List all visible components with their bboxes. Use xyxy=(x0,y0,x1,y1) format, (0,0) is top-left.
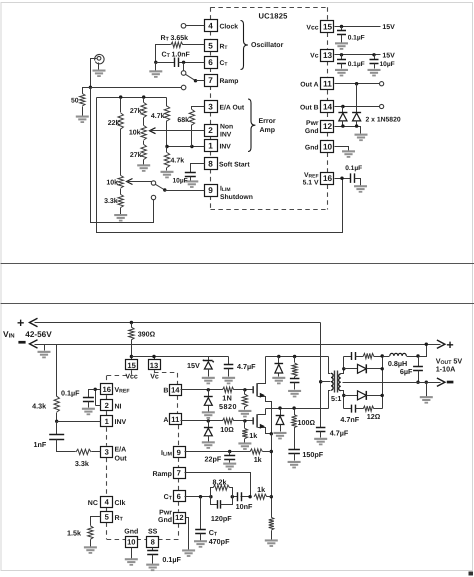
node secondary top diode tap xyxy=(342,367,345,370)
resistor 22k xyxy=(120,98,122,113)
wire INV row bottom xyxy=(57,421,101,423)
svg-text:2: 2 xyxy=(105,401,109,410)
svg-text:Shutdown: Shutdown xyxy=(220,194,253,201)
svg-text:Clock: Clock xyxy=(220,23,239,30)
svg-text:5: 5 xyxy=(208,42,213,51)
ground pin 12 xyxy=(182,549,195,556)
node Out B diode tap xyxy=(341,105,344,108)
resistor 4.7k upper xyxy=(166,98,168,107)
svg-text:RT: RT xyxy=(115,515,124,523)
svg-text:50: 50 xyxy=(71,97,79,104)
ground below 22pF xyxy=(223,463,236,470)
arrow VIN plus xyxy=(30,318,38,326)
switch S1 lever xyxy=(186,74,196,80)
transistor Q1 upper MOSFET xyxy=(252,386,254,393)
svg-text:Vcc: Vcc xyxy=(125,374,138,381)
node B diode tap xyxy=(207,388,210,391)
node CT switch tap xyxy=(182,61,185,64)
capacitor CT 1.0nF xyxy=(156,62,175,64)
wire VREF divider rail xyxy=(97,97,167,99)
pin 8 Soft Start xyxy=(205,158,218,170)
capacitor 10uF Vc xyxy=(374,55,376,60)
wire Vcc 15V xyxy=(335,26,381,28)
svg-text:8: 8 xyxy=(208,160,213,169)
svg-text:9: 9 xyxy=(208,186,213,195)
minus mark VOUT xyxy=(447,381,454,384)
pin 14 Out B xyxy=(321,101,334,113)
node upper RC snubber xyxy=(293,355,296,358)
resistor 4.7k lower xyxy=(166,147,168,153)
svg-text:0.1µF: 0.1µF xyxy=(162,555,181,564)
svg-text:16: 16 xyxy=(102,385,110,394)
pin 15 Vcc xyxy=(321,21,334,33)
pin 5 RT xyxy=(205,40,218,52)
wire input line to ramp switch xyxy=(91,87,182,89)
ground below SS cap xyxy=(146,564,159,572)
capacitor 0.1uF soft start xyxy=(152,548,154,551)
brace error amp group xyxy=(248,99,255,152)
node ramp tap xyxy=(248,495,251,498)
ground below 4.7k lower xyxy=(161,171,174,179)
svg-text:6: 6 xyxy=(177,492,181,501)
diode 1N5820 A xyxy=(208,421,210,428)
pin 1 INV xyxy=(205,140,218,152)
wire INV row xyxy=(167,146,205,148)
arrow VIN minus xyxy=(30,340,38,348)
wire Out A to diode D2 xyxy=(356,84,358,113)
pot wiper arrow lower xyxy=(127,179,133,185)
svg-text:2 x 1N5820: 2 x 1N5820 xyxy=(366,116,401,123)
svg-text:4.3k: 4.3k xyxy=(32,402,46,411)
node drain clamp diode lower xyxy=(278,406,281,409)
pin 5 RT bottom IC xyxy=(101,512,113,523)
svg-text:3.3k: 3.3k xyxy=(75,459,89,468)
wire VREF loop xyxy=(97,98,343,233)
svg-text:15: 15 xyxy=(323,23,333,32)
pin 1 INV bottom IC xyxy=(101,416,113,427)
terminal clock output xyxy=(181,24,186,29)
wire B drive row xyxy=(181,389,223,391)
switch S2 ILIM select upper contact xyxy=(151,181,155,185)
transformer T1 core xyxy=(334,371,336,393)
svg-text:8: 8 xyxy=(151,538,155,547)
svg-text:0.1µF: 0.1µF xyxy=(348,34,365,41)
node 22pF tap xyxy=(228,450,231,453)
svg-text:7: 7 xyxy=(177,469,181,478)
svg-text:Clk: Clk xyxy=(115,499,126,507)
wire pin 13 stub xyxy=(154,357,156,361)
minus mark VIN xyxy=(18,341,25,344)
node A gate resistor xyxy=(243,419,246,422)
svg-text:VREF: VREF xyxy=(115,387,130,395)
svg-text:120pF: 120pF xyxy=(211,514,232,523)
node CT left xyxy=(154,61,157,64)
ground below 1k gate A xyxy=(238,442,251,450)
wire pin 12 ground xyxy=(186,518,189,550)
resistor 1k gate A xyxy=(244,421,246,429)
pin 15 Vcc bottom IC xyxy=(126,360,138,370)
potentiometer 10k lower xyxy=(118,176,123,189)
capacitor 4.7uF center tap xyxy=(316,428,326,432)
svg-text:Out: Out xyxy=(115,455,128,462)
wire pin 4 clock to terminal xyxy=(186,25,205,27)
node 100 ohm snubber xyxy=(292,406,295,409)
ground below 1k gate B xyxy=(238,410,251,418)
ground pin 10 bottom xyxy=(125,558,138,566)
node primary center tap xyxy=(319,380,322,383)
arrow VOUT minus xyxy=(437,378,445,386)
input connector J1 xyxy=(97,56,101,60)
svg-text:5820: 5820 xyxy=(219,402,237,411)
node Vcc bypass xyxy=(340,25,343,28)
pin 3 E/A Out bottom IC xyxy=(101,447,113,458)
svg-text:27k: 27k xyxy=(130,151,142,159)
svg-text:E/A Out: E/A Out xyxy=(220,105,245,112)
resistor 1k gate B xyxy=(244,390,246,395)
ground below lower clamp diode xyxy=(274,432,287,440)
pin 4 Clock xyxy=(205,20,218,32)
node common source xyxy=(270,432,273,435)
svg-text:B: B xyxy=(163,388,168,395)
ground below Vc 10uF xyxy=(368,69,381,77)
svg-text:12Ω: 12Ω xyxy=(367,412,381,421)
svg-text:1.5k: 1.5k xyxy=(67,529,81,538)
horizontal rule between figures (upper) xyxy=(1,263,474,265)
svg-text:Ramp: Ramp xyxy=(220,78,239,85)
ground below Vcc cap xyxy=(335,42,348,50)
capacitor 120pF xyxy=(211,497,218,505)
ground below VREF cap xyxy=(354,185,367,193)
svg-text:13: 13 xyxy=(323,51,333,60)
snubber R upper xyxy=(294,357,296,363)
ground below upper snubber xyxy=(288,390,301,398)
ground below 150pF xyxy=(288,461,301,469)
resistor 10 ohm A xyxy=(223,418,234,423)
svg-text:Ramp: Ramp xyxy=(152,471,171,478)
IC U1 UC1825 dashed outline xyxy=(211,7,328,9)
ground below 27k lower xyxy=(137,164,150,172)
node VREF bypass xyxy=(94,388,97,391)
capacitor 0.1uF Vcc xyxy=(341,27,343,31)
svg-text:+: + xyxy=(17,316,24,330)
wire Vc 15V xyxy=(335,54,381,56)
node bus diode bottom xyxy=(381,394,384,397)
node VREF xyxy=(340,177,343,180)
svg-text:2: 2 xyxy=(208,126,213,135)
svg-text:CT: CT xyxy=(162,52,171,60)
svg-text:1k: 1k xyxy=(254,455,262,464)
svg-text:9: 9 xyxy=(177,448,181,457)
switch S2 ILIM select lower contact xyxy=(151,195,155,199)
pin 4 Clk bottom IC xyxy=(101,497,113,508)
resistor 3.3k compensation xyxy=(76,449,91,454)
node plus rail xyxy=(425,343,428,346)
svg-text:16: 16 xyxy=(323,174,333,183)
wire Pwr Gnd row xyxy=(335,127,361,134)
switch S2 lever xyxy=(155,184,164,190)
node combo left xyxy=(209,495,212,498)
svg-text:12: 12 xyxy=(175,513,183,522)
svg-text:13: 13 xyxy=(150,361,158,370)
node Vc bypass 2 xyxy=(372,53,375,56)
node secondary bottom diode tap xyxy=(342,394,345,397)
ground pin 10 xyxy=(342,150,355,158)
svg-text:4: 4 xyxy=(208,22,213,31)
node sense ramp row xyxy=(270,495,273,498)
svg-text:0.1µF: 0.1µF xyxy=(345,165,362,172)
resistor 390 ohm xyxy=(131,323,133,328)
pin 16 VREF 5.1V xyxy=(321,173,334,185)
pin 13 Vc bottom IC xyxy=(149,360,161,370)
resistor 1.5k RT xyxy=(91,517,101,526)
ground below 3.3k xyxy=(114,214,127,222)
svg-text:INV: INV xyxy=(115,419,127,426)
svg-text:4.7k: 4.7k xyxy=(151,112,165,120)
pin 9 ILIM bottom IC xyxy=(174,447,186,458)
node pwr gnd D1 xyxy=(341,124,344,127)
svg-text:5.1 V: 5.1 V xyxy=(303,179,319,186)
svg-text:10nF: 10nF xyxy=(236,502,253,511)
node CT 470pF tap xyxy=(199,495,202,498)
svg-text:Out A: Out A xyxy=(300,82,318,89)
arrow VOUT plus xyxy=(437,340,445,348)
node B gate resistor xyxy=(243,388,246,391)
snubber bottom 4.7nF 12 ohm xyxy=(344,408,352,410)
svg-text:Gnd: Gnd xyxy=(124,528,138,536)
node Vcc row left xyxy=(130,355,133,358)
wire wiper to pin 2 Non INV xyxy=(150,130,205,132)
ground below 50 ohm xyxy=(76,116,89,124)
ground below diode B xyxy=(202,411,215,419)
wire CT cap to pin 6 xyxy=(179,62,205,64)
svg-text:Pwr: Pwr xyxy=(159,510,172,517)
IC U2 UC1825 dashed outline xyxy=(131,370,133,375)
svg-text:470pF: 470pF xyxy=(209,537,230,546)
ground below zener xyxy=(202,377,215,385)
wire upper drain row xyxy=(266,356,329,358)
svg-text:Soft Start: Soft Start xyxy=(219,162,250,169)
svg-text:INV: INV xyxy=(220,132,232,139)
ground below diode A xyxy=(202,441,215,449)
svg-text:8.2k: 8.2k xyxy=(213,477,227,486)
resistor 1k ILIM xyxy=(250,449,262,454)
node bus top xyxy=(381,354,384,357)
pin 9 ILIM Shutdown xyxy=(205,185,218,197)
inductor 0.8uH xyxy=(383,356,390,358)
pin 12 Pwr Gnd bottom IC xyxy=(174,513,186,524)
diode 1N5820 B xyxy=(208,390,210,397)
wire 15V row xyxy=(132,356,229,358)
wire center tap stub xyxy=(321,381,330,383)
svg-text:Non: Non xyxy=(220,123,233,130)
wire ILIM row xyxy=(185,451,251,453)
svg-text:4.7µF: 4.7µF xyxy=(330,428,349,437)
svg-text:0.1µF: 0.1µF xyxy=(61,389,80,398)
svg-text:Vcc: Vcc xyxy=(306,24,318,31)
ground below upper clamp diode xyxy=(272,377,285,385)
switch S1 ramp select lower contact xyxy=(181,85,186,90)
ground Pwr Gnd xyxy=(355,134,368,142)
wire connector to input node xyxy=(91,59,97,88)
svg-text:68k: 68k xyxy=(177,116,189,124)
svg-text:CT: CT xyxy=(220,60,228,68)
svg-text:INV: INV xyxy=(220,144,232,151)
wire lower drain row xyxy=(266,408,329,410)
wire Ramp to CT row xyxy=(185,473,251,497)
svg-text:1nF: 1nF xyxy=(34,440,47,449)
svg-text:1: 1 xyxy=(208,142,213,151)
node output ground xyxy=(425,381,428,384)
node Out A diode tap xyxy=(355,82,358,85)
svg-text:NC: NC xyxy=(88,500,98,507)
svg-text:10k: 10k xyxy=(106,178,118,186)
svg-text:10: 10 xyxy=(323,142,333,151)
wire Gnd pin 10 xyxy=(335,147,349,151)
resistor 4.3k feedback xyxy=(56,345,58,397)
pin 2 Non INV xyxy=(205,125,218,137)
svg-text:Gnd: Gnd xyxy=(305,128,319,135)
capacitor 4.7uF 15V rail xyxy=(228,357,230,365)
connector ground xyxy=(98,63,100,70)
node 4.3k INV xyxy=(55,420,58,423)
pin 6 CT xyxy=(205,57,218,69)
transformer T1 secondary winding xyxy=(339,374,341,391)
svg-text:1-10A: 1-10A xyxy=(436,365,456,374)
wire lever to pin 7 xyxy=(196,80,205,82)
node INV 4.7k xyxy=(165,145,168,148)
pin 6 CT bottom IC xyxy=(174,491,186,502)
svg-text:3.3k: 3.3k xyxy=(104,197,118,205)
pin 7 Ramp xyxy=(205,75,218,87)
svg-text:Out B: Out B xyxy=(300,104,319,111)
resistor current sense xyxy=(269,517,274,530)
svg-text:A: A xyxy=(163,417,168,424)
wire secondary center tap to output minus xyxy=(343,382,419,384)
svg-text:10µF: 10µF xyxy=(380,61,395,68)
resistor 10 ohm B xyxy=(223,387,234,392)
wire CT row xyxy=(185,496,211,498)
resistor 27k upper xyxy=(143,98,145,103)
svg-text:Vc: Vc xyxy=(150,374,159,381)
pin 10 Gnd bottom IC xyxy=(126,537,138,548)
terminal Out B xyxy=(380,104,384,108)
svg-text:1.0nF: 1.0nF xyxy=(172,52,191,59)
svg-text:5:1: 5:1 xyxy=(331,394,341,403)
snubber top 4.7nF 12 ohm xyxy=(344,356,352,358)
capacitor 150pF snubber xyxy=(294,428,296,450)
svg-text:15: 15 xyxy=(127,361,136,370)
svg-text:RT: RT xyxy=(220,43,228,51)
wire Out B xyxy=(335,106,380,108)
svg-text:42-56V: 42-56V xyxy=(25,330,52,339)
snubber C upper xyxy=(294,377,296,379)
diode clamp lower drain xyxy=(280,409,282,416)
potentiometer 10k upper xyxy=(141,126,146,141)
capacitor 10nF xyxy=(238,492,242,501)
svg-text:Oscillator: Oscillator xyxy=(251,41,284,49)
transistor Q2 lower MOSFET xyxy=(252,417,254,424)
svg-text:+: + xyxy=(446,338,453,352)
ground below Vc 0.1uF xyxy=(335,69,348,77)
svg-text:E/A: E/A xyxy=(115,445,127,453)
svg-text:4.7µF: 4.7µF xyxy=(237,362,256,371)
svg-text:10k: 10k xyxy=(129,129,141,137)
node combo right xyxy=(231,495,234,498)
svg-text:15V: 15V xyxy=(382,53,395,60)
node A diode tap xyxy=(207,419,210,422)
pin 11 A bottom IC xyxy=(170,414,182,425)
pin 16 VREF bottom IC xyxy=(101,384,113,395)
node 6uF minus xyxy=(416,381,419,384)
page corner mark bottom-right xyxy=(469,572,474,576)
ground below 4.7uF xyxy=(222,377,235,385)
node sense ILIM row xyxy=(270,450,273,453)
svg-text:ILIM: ILIM xyxy=(161,450,172,458)
node bus diode top xyxy=(381,367,384,370)
ground below VREF cap bottom xyxy=(82,408,95,415)
wire rectified bus xyxy=(382,357,384,409)
diode D2 1N5820 xyxy=(352,112,361,114)
wire VIN+ to center tap xyxy=(320,323,322,428)
zener diode 15V clamp xyxy=(208,357,210,361)
brace oscillator group xyxy=(241,21,248,70)
node ramp lever xyxy=(194,79,197,82)
svg-text:3.65k: 3.65k xyxy=(171,34,189,42)
wire input loop down to ILIM switch xyxy=(91,88,154,223)
svg-text:150pF: 150pF xyxy=(302,450,323,459)
svg-text:15V: 15V xyxy=(382,24,395,31)
pin 12 Pwr Gnd xyxy=(321,121,334,133)
resistor 68k feedback xyxy=(192,107,205,110)
ground below CT node xyxy=(155,63,157,71)
svg-text:1k: 1k xyxy=(257,485,265,494)
svg-text:390Ω: 390Ω xyxy=(138,330,156,339)
diode D1 1N5820 xyxy=(338,112,347,114)
svg-text:Pwr: Pwr xyxy=(306,120,319,127)
svg-text:RT: RT xyxy=(161,35,170,43)
svg-text:12: 12 xyxy=(323,122,333,131)
resistor RT 3.65k xyxy=(171,42,183,47)
resistor 3.3k xyxy=(118,195,123,208)
capacitor 6uF output xyxy=(418,357,420,367)
capacitor 0.1uF VREF bottom xyxy=(89,390,96,398)
svg-text:Amp: Amp xyxy=(260,127,276,134)
wire Out A xyxy=(335,83,380,85)
wire lever to pin 9 xyxy=(165,190,205,192)
wire A drive row xyxy=(181,420,223,422)
node Vc stub xyxy=(152,355,155,358)
pin 7 Ramp bottom IC xyxy=(174,468,186,479)
wire pin 10 ground stub xyxy=(131,548,133,559)
svg-text:Gnd: Gnd xyxy=(305,144,319,151)
svg-text:Gnd: Gnd xyxy=(158,516,172,524)
svg-text:22k: 22k xyxy=(108,119,120,127)
wire inductor to plus rail xyxy=(419,345,427,357)
transformer T1 primary winding xyxy=(329,357,331,374)
node rail 27k xyxy=(142,95,145,98)
node pwr gnd D2 xyxy=(355,124,358,127)
svg-text:1k: 1k xyxy=(249,431,257,440)
node 390 ohm tap xyxy=(130,321,133,324)
svg-text:Error: Error xyxy=(259,118,276,125)
svg-text:27k: 27k xyxy=(130,107,142,115)
wire VREF NI node xyxy=(96,389,101,391)
node drain clamp diode upper xyxy=(277,355,280,358)
svg-text:10: 10 xyxy=(127,538,135,547)
pot wiper arrow upper xyxy=(150,128,156,134)
svg-text:VREF: VREF xyxy=(304,172,319,180)
svg-text:14: 14 xyxy=(323,103,333,112)
